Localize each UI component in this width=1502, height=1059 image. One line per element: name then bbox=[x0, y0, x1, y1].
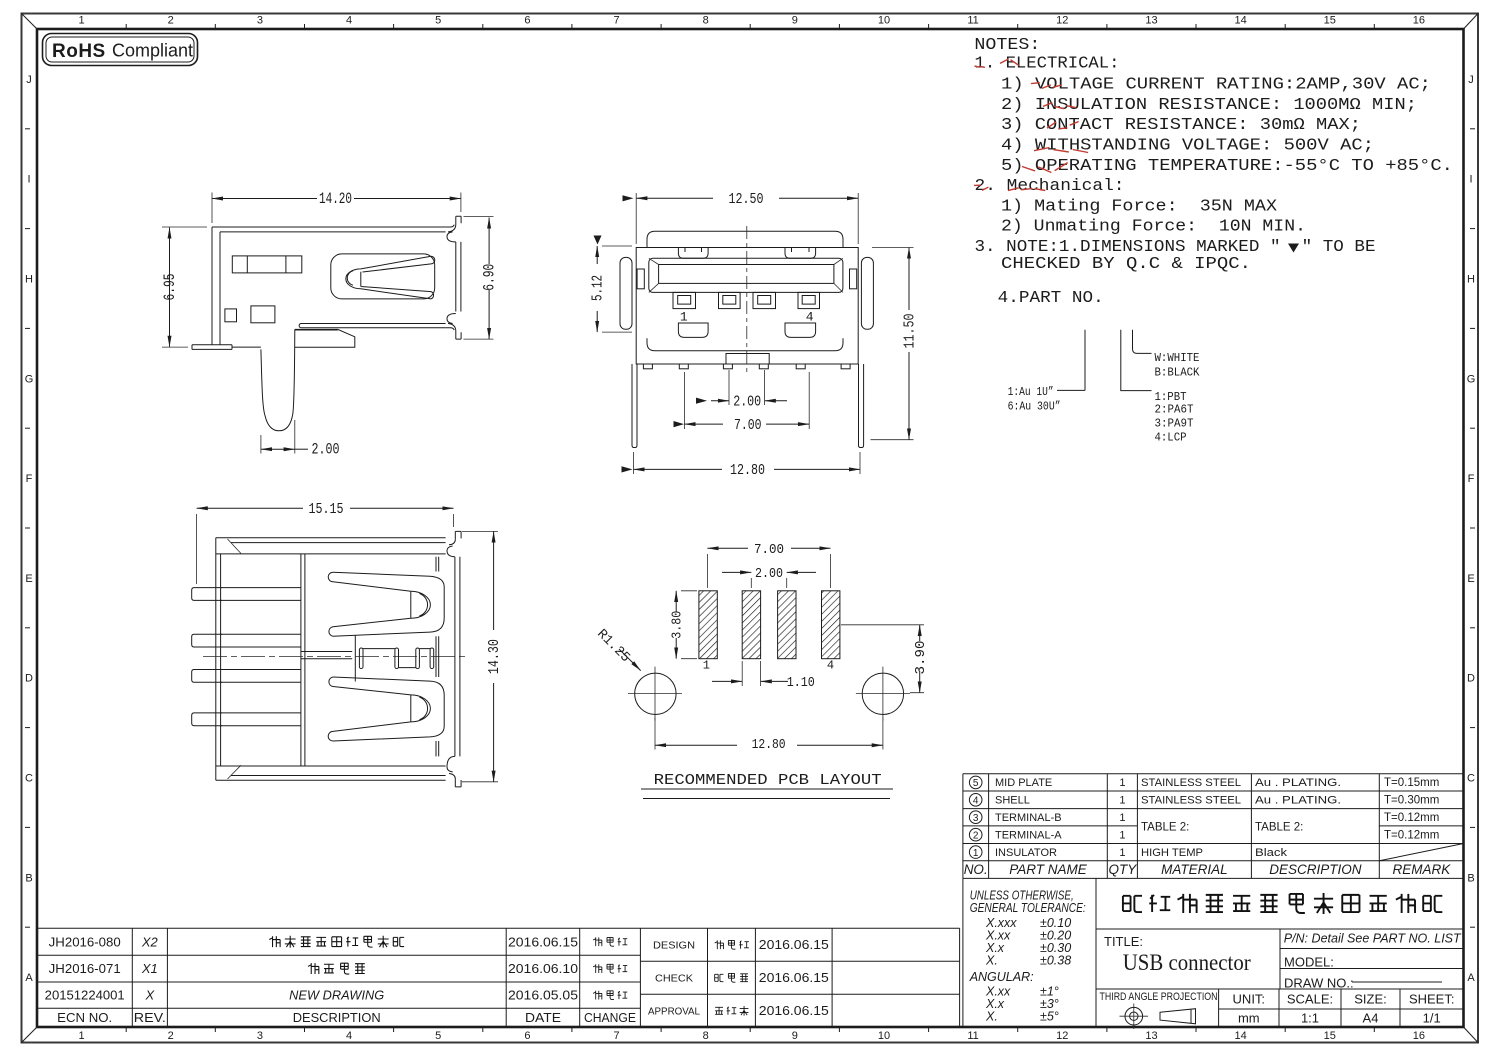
svg-text:2.00: 2.00 bbox=[312, 441, 340, 459]
svg-text:SIZE:: SIZE: bbox=[1354, 992, 1387, 1007]
svg-text:1:1: 1:1 bbox=[1301, 1011, 1319, 1026]
svg-text:13: 13 bbox=[1145, 15, 1157, 27]
svg-text:16: 16 bbox=[1413, 1030, 1425, 1042]
svg-text:1: 1 bbox=[1119, 777, 1125, 789]
svg-text:T=0.30mm: T=0.30mm bbox=[1384, 795, 1439, 807]
svg-text:3:PA9T: 3:PA9T bbox=[1155, 417, 1194, 431]
svg-text:4.PART NO.: 4.PART NO. bbox=[998, 289, 1104, 308]
svg-text:X: X bbox=[144, 988, 155, 1003]
svg-text:±5°: ±5° bbox=[1040, 1010, 1059, 1024]
svg-text:Compliant: Compliant bbox=[112, 41, 193, 61]
svg-text:TERMINAL-B: TERMINAL-B bbox=[995, 812, 1062, 824]
svg-text:15: 15 bbox=[1324, 1030, 1336, 1042]
svg-text:4) WITHSTANDING VOLTAGE: 500V: 4) WITHSTANDING VOLTAGE: 500V AC; bbox=[1001, 137, 1374, 156]
svg-text:1: 1 bbox=[1119, 847, 1125, 859]
svg-text:2:PA6T: 2:PA6T bbox=[1155, 403, 1194, 417]
svg-text:THIRD ANGLE PROJECTION: THIRD ANGLE PROJECTION bbox=[1100, 991, 1218, 1003]
svg-text:DESCRIPTION: DESCRIPTION bbox=[1269, 862, 1362, 877]
svg-text:2016.06.10: 2016.06.10 bbox=[508, 961, 578, 976]
svg-text:11: 11 bbox=[967, 1030, 978, 1042]
svg-text:I: I bbox=[1469, 174, 1472, 186]
svg-text:T=0.12mm: T=0.12mm bbox=[1384, 830, 1439, 842]
svg-text:PART NAME: PART NAME bbox=[1009, 862, 1088, 877]
svg-text:12: 12 bbox=[1056, 15, 1068, 27]
svg-text:2016.05.05: 2016.05.05 bbox=[508, 988, 578, 1003]
svg-text:X2: X2 bbox=[141, 934, 159, 949]
svg-text:HIGH TEMP: HIGH TEMP bbox=[1141, 847, 1203, 859]
svg-text:8: 8 bbox=[703, 15, 709, 27]
svg-text:UNIT:: UNIT: bbox=[1233, 992, 1266, 1007]
svg-text:JH2016-080: JH2016-080 bbox=[49, 934, 121, 949]
svg-text:12.50: 12.50 bbox=[729, 192, 764, 208]
svg-text:12.80: 12.80 bbox=[752, 738, 786, 753]
svg-text:15.15: 15.15 bbox=[309, 502, 344, 518]
svg-text:mm: mm bbox=[1238, 1011, 1260, 1026]
svg-text:14: 14 bbox=[1234, 15, 1246, 27]
svg-text:15: 15 bbox=[1324, 15, 1336, 27]
svg-text:DATE: DATE bbox=[525, 1010, 561, 1025]
svg-text:E: E bbox=[1467, 573, 1474, 585]
svg-text:F: F bbox=[1468, 473, 1475, 485]
svg-text:ECN NO.: ECN NO. bbox=[57, 1010, 112, 1025]
svg-text:A: A bbox=[25, 972, 33, 984]
svg-text:9: 9 bbox=[792, 15, 798, 27]
svg-text:2: 2 bbox=[168, 1030, 174, 1042]
svg-text:5: 5 bbox=[435, 1030, 441, 1042]
svg-text:1.10: 1.10 bbox=[787, 676, 815, 691]
svg-text:DRAW NO.:: DRAW NO.: bbox=[1284, 976, 1354, 991]
svg-text:1: 1 bbox=[680, 309, 688, 324]
svg-text:6:Au 30U”: 6:Au 30U” bbox=[1008, 400, 1061, 414]
svg-text:APPROVAL: APPROVAL bbox=[648, 1006, 700, 1018]
svg-text:11: 11 bbox=[967, 15, 978, 27]
svg-text:3: 3 bbox=[257, 1030, 263, 1042]
svg-text:3) CONTACT RESISTANCE: 30mΩ MA: 3) CONTACT RESISTANCE: 30mΩ MAX; bbox=[1001, 116, 1361, 135]
svg-text:4: 4 bbox=[346, 15, 352, 27]
svg-text:2.00: 2.00 bbox=[755, 567, 783, 582]
svg-text:13: 13 bbox=[1145, 1030, 1157, 1042]
svg-text:6: 6 bbox=[524, 1030, 530, 1042]
svg-text:6.95: 6.95 bbox=[161, 274, 179, 301]
svg-text:1/1: 1/1 bbox=[1423, 1011, 1441, 1026]
svg-text:1: 1 bbox=[703, 659, 710, 673]
svg-text:1: 1 bbox=[1119, 795, 1125, 807]
svg-text:TITLE:: TITLE: bbox=[1104, 934, 1143, 949]
svg-text:2) INSULATION RESISTANCE: 1000: 2) INSULATION RESISTANCE: 1000MΩ MIN; bbox=[1001, 96, 1417, 115]
svg-text:SHEET:: SHEET: bbox=[1409, 992, 1455, 1007]
svg-text:5.12: 5.12 bbox=[591, 275, 607, 301]
svg-text:E: E bbox=[25, 573, 32, 585]
svg-text:J: J bbox=[1468, 74, 1474, 86]
svg-text:12: 12 bbox=[1056, 1030, 1068, 1042]
svg-text:1: 1 bbox=[79, 15, 85, 27]
svg-text:6: 6 bbox=[524, 15, 530, 27]
svg-text:TABLE 2:: TABLE 2: bbox=[1141, 822, 1189, 834]
svg-text:2016.06.15: 2016.06.15 bbox=[759, 970, 829, 985]
svg-text:QTY: QTY bbox=[1109, 862, 1138, 877]
svg-text:14.30: 14.30 bbox=[487, 639, 503, 674]
svg-text:GENERAL TOLERANCE:: GENERAL TOLERANCE: bbox=[970, 901, 1086, 915]
svg-text:7.00: 7.00 bbox=[734, 418, 762, 434]
svg-text:16: 16 bbox=[1413, 15, 1425, 27]
svg-text:1. ELECTRICAL:: 1. ELECTRICAL: bbox=[975, 55, 1120, 74]
svg-text:5) OPERATING TEMPERATURE:-55°C: 5) OPERATING TEMPERATURE:-55°C TO +85°C. bbox=[1001, 157, 1453, 176]
svg-text:2) Unmating Force: 10N MIN.: 2) Unmating Force: 10N MIN. bbox=[1001, 218, 1306, 237]
svg-text:3: 3 bbox=[973, 813, 979, 824]
svg-text:Au . PLATING.: Au . PLATING. bbox=[1255, 795, 1341, 807]
svg-text:2016.06.15: 2016.06.15 bbox=[759, 1003, 829, 1018]
svg-text:USB connector: USB connector bbox=[1123, 950, 1251, 975]
svg-text:2016.06.15: 2016.06.15 bbox=[759, 937, 829, 952]
svg-text:7: 7 bbox=[613, 15, 619, 27]
svg-text:DESCRIPTION: DESCRIPTION bbox=[293, 1010, 381, 1025]
svg-text:9: 9 bbox=[792, 1030, 798, 1042]
svg-text:X.: X. bbox=[985, 1010, 998, 1024]
svg-text:P/N: Detail See PART NO. LIST: P/N: Detail See PART NO. LIST bbox=[1284, 932, 1462, 946]
svg-text:2. Mechanical:: 2. Mechanical: bbox=[975, 177, 1125, 196]
svg-text:REV.: REV. bbox=[134, 1010, 166, 1025]
svg-text:3.90: 3.90 bbox=[914, 641, 929, 675]
svg-text:X.: X. bbox=[985, 954, 998, 968]
svg-text:B:BLACK: B:BLACK bbox=[1155, 366, 1201, 380]
svg-text:1: 1 bbox=[1119, 812, 1125, 824]
svg-text:14: 14 bbox=[1234, 1030, 1246, 1042]
svg-text:C: C bbox=[1467, 773, 1475, 785]
svg-text:D: D bbox=[25, 673, 33, 685]
svg-text:1:Au 1U”: 1:Au 1U” bbox=[1008, 385, 1054, 399]
svg-text:F: F bbox=[26, 473, 33, 485]
svg-text:TERMINAL-A: TERMINAL-A bbox=[995, 830, 1062, 842]
svg-text:JH2016-071: JH2016-071 bbox=[49, 961, 121, 976]
svg-text:5: 5 bbox=[973, 778, 979, 789]
svg-text:SCALE:: SCALE: bbox=[1287, 992, 1333, 1007]
svg-text:W:WHITE: W:WHITE bbox=[1155, 351, 1200, 365]
svg-text:J: J bbox=[26, 74, 32, 86]
svg-text:1: 1 bbox=[79, 1030, 85, 1042]
svg-text:Black: Black bbox=[1255, 847, 1288, 859]
svg-text:1) Mating Force: 35N MAX: 1) Mating Force: 35N MAX bbox=[1001, 197, 1277, 216]
svg-text:MATERIAL: MATERIAL bbox=[1161, 862, 1228, 877]
svg-text:4: 4 bbox=[806, 309, 814, 324]
svg-text:CHECK: CHECK bbox=[655, 973, 693, 985]
svg-text:STAINLESS STEEL: STAINLESS STEEL bbox=[1141, 777, 1241, 789]
svg-text:1: 1 bbox=[1119, 830, 1125, 842]
svg-text:D: D bbox=[1467, 673, 1475, 685]
svg-text:REMARK: REMARK bbox=[1393, 862, 1452, 877]
svg-text:4: 4 bbox=[973, 795, 979, 806]
svg-text:A: A bbox=[1467, 972, 1475, 984]
svg-text:7.00: 7.00 bbox=[754, 543, 784, 558]
svg-text:14.20: 14.20 bbox=[319, 190, 352, 208]
svg-text:10: 10 bbox=[878, 1030, 890, 1042]
svg-text:DESIGN: DESIGN bbox=[653, 940, 695, 952]
svg-text:SHELL: SHELL bbox=[995, 795, 1030, 807]
svg-text:NEW DRAWING: NEW DRAWING bbox=[289, 989, 384, 1003]
svg-text:1: 1 bbox=[973, 848, 979, 859]
svg-text:4: 4 bbox=[827, 659, 834, 673]
svg-text:RoHS: RoHS bbox=[52, 41, 106, 62]
svg-text:4: 4 bbox=[346, 1030, 352, 1042]
svg-text:C: C bbox=[25, 773, 33, 785]
svg-text:6.90: 6.90 bbox=[481, 264, 499, 291]
svg-text:4:LCP: 4:LCP bbox=[1155, 431, 1187, 445]
svg-text:INSULATOR: INSULATOR bbox=[995, 847, 1057, 859]
svg-text:H: H bbox=[1467, 274, 1475, 286]
svg-text:CHECKED BY Q.C & IPQC.: CHECKED BY Q.C & IPQC. bbox=[1001, 255, 1251, 274]
svg-text:ANGULAR:: ANGULAR: bbox=[969, 970, 1034, 984]
svg-text:3: 3 bbox=[257, 15, 263, 27]
svg-text:7: 7 bbox=[613, 1030, 619, 1042]
svg-text:NOTES:: NOTES: bbox=[974, 36, 1040, 55]
svg-text:H: H bbox=[25, 274, 33, 286]
svg-text:T=0.15mm: T=0.15mm bbox=[1384, 777, 1439, 789]
svg-text:B: B bbox=[25, 872, 32, 884]
svg-text:2: 2 bbox=[973, 830, 979, 841]
svg-text:11.50: 11.50 bbox=[902, 314, 918, 349]
svg-text:T=0.12mm: T=0.12mm bbox=[1384, 812, 1439, 824]
svg-text:RECOMMENDED PCB LAYOUT: RECOMMENDED PCB LAYOUT bbox=[654, 773, 882, 789]
svg-text:20151224001: 20151224001 bbox=[45, 988, 125, 1003]
svg-text:±0.38: ±0.38 bbox=[1040, 954, 1071, 968]
svg-text:MID PLATE: MID PLATE bbox=[995, 777, 1052, 789]
svg-text:G: G bbox=[1467, 373, 1476, 385]
svg-text:STAINLESS STEEL: STAINLESS STEEL bbox=[1141, 795, 1241, 807]
svg-text:2: 2 bbox=[168, 15, 174, 27]
svg-text:CHANGE: CHANGE bbox=[584, 1010, 636, 1025]
svg-text:8: 8 bbox=[703, 1030, 709, 1042]
svg-text:2016.06.15: 2016.06.15 bbox=[508, 934, 578, 949]
svg-text:12.80: 12.80 bbox=[730, 463, 765, 479]
svg-text:2.00: 2.00 bbox=[733, 394, 761, 410]
svg-text:X1: X1 bbox=[141, 961, 158, 976]
svg-text:10: 10 bbox=[878, 15, 890, 27]
svg-text:5: 5 bbox=[435, 15, 441, 27]
svg-text:3.80: 3.80 bbox=[671, 611, 686, 639]
svg-text:MODEL:: MODEL: bbox=[1284, 955, 1334, 970]
svg-text:1) VOLTAGE CURRENT RATING:2AMP: 1) VOLTAGE CURRENT RATING:2AMP,30V AC; bbox=[1001, 76, 1431, 95]
svg-text:I: I bbox=[27, 174, 30, 186]
svg-text:Au . PLATING.: Au . PLATING. bbox=[1255, 777, 1341, 789]
svg-text:TABLE 2:: TABLE 2: bbox=[1255, 822, 1303, 834]
svg-text:A4: A4 bbox=[1363, 1011, 1379, 1026]
svg-text:G: G bbox=[25, 373, 34, 385]
svg-text:B: B bbox=[1467, 872, 1474, 884]
svg-text:NO.: NO. bbox=[964, 862, 988, 877]
